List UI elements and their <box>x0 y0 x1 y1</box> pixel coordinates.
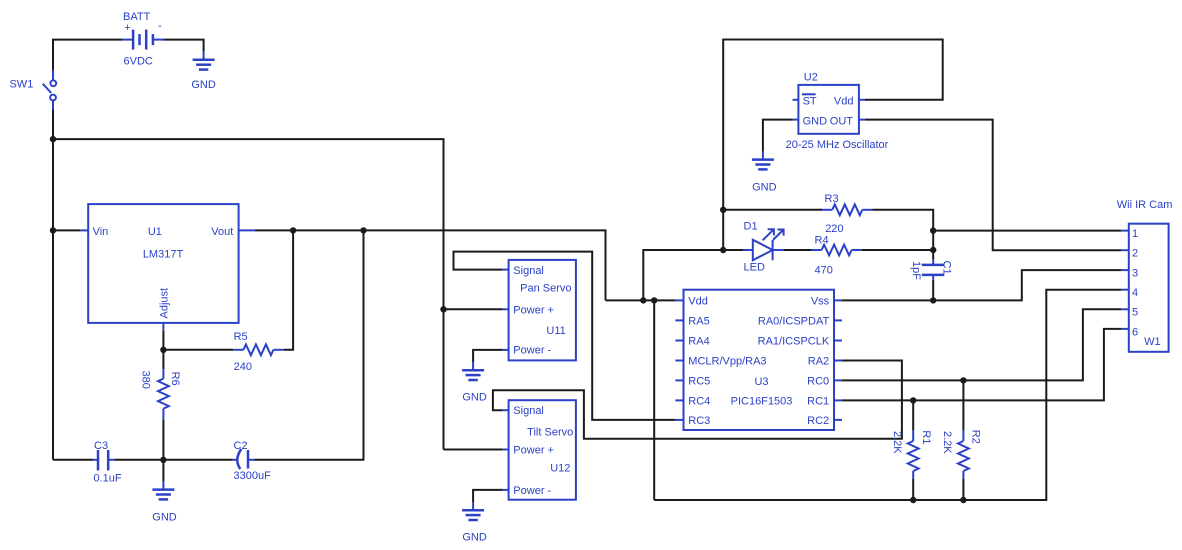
svg-text:Vdd: Vdd <box>688 295 708 307</box>
svg-text:RA0/ICSPDAT: RA0/ICSPDAT <box>758 315 830 327</box>
ground (tilt servo) <box>462 502 487 544</box>
node junction ground column on Vdd rail <box>651 297 657 303</box>
svg-text:380: 380 <box>140 371 152 389</box>
node junction R4/C1 <box>930 247 936 253</box>
node junction adjust/R5/R6 <box>160 347 166 353</box>
svg-text:U11: U11 <box>546 325 565 337</box>
svg-text:Wii IR Cam: Wii IR Cam <box>1117 199 1173 211</box>
svg-text:RA1/ICSPCLK: RA1/ICSPCLK <box>758 336 830 348</box>
svg-text:GND: GND <box>462 532 487 544</box>
resistor R5 <box>233 344 284 355</box>
svg-text:240: 240 <box>234 361 252 373</box>
svg-text:RA4: RA4 <box>688 336 709 348</box>
node junction R2 bottom <box>960 497 966 503</box>
wire tilt power+ <box>444 449 503 451</box>
svg-text:R3: R3 <box>825 193 839 205</box>
wire C1 bottom to Vss row <box>932 280 934 301</box>
svg-text:R4: R4 <box>815 235 829 247</box>
resistor R1 vertical <box>908 400 919 500</box>
node junction C1/Vss <box>930 297 936 303</box>
capacitor C3 <box>93 450 115 470</box>
resistor R6 vertical <box>158 350 169 460</box>
svg-text:SW1: SW1 <box>9 78 33 90</box>
wire to U1 Vin <box>53 229 80 231</box>
svg-text:0.1uF: 0.1uF <box>94 472 122 484</box>
microcontroller U3 PIC16F1503 box <box>675 290 842 430</box>
svg-text:RC1: RC1 <box>807 395 829 407</box>
resistor R4 <box>811 245 861 256</box>
wire W1 pin1 row <box>933 230 1121 232</box>
node junction Vin split <box>50 227 56 233</box>
svg-text:Adjust: Adjust <box>158 288 170 319</box>
connector U12 Tilt Servo box <box>503 400 576 500</box>
ground (battery) <box>191 52 216 91</box>
wire pan power- to ground <box>473 350 503 362</box>
svg-text:MCLR/Vpp/RA3: MCLR/Vpp/RA3 <box>688 356 766 368</box>
capacitor C1 <box>922 260 945 280</box>
svg-text:PIC16F1503: PIC16F1503 <box>731 395 793 407</box>
node junction R3 tap <box>720 207 726 213</box>
wire U2 GND pin to ground <box>763 120 793 152</box>
wire power rail to servos (horizontal) <box>53 139 444 449</box>
svg-text:OUT: OUT <box>830 115 854 127</box>
wire RC0 row to W1 pin5 <box>842 309 1121 380</box>
svg-text:RA5: RA5 <box>688 315 709 327</box>
svg-text:GND: GND <box>803 115 828 127</box>
svg-text:RA2: RA2 <box>808 356 829 368</box>
wire Vss row to W1 pin3 riser <box>842 270 1121 300</box>
svg-text:C3: C3 <box>94 440 108 452</box>
svg-text:RC2: RC2 <box>807 415 829 427</box>
svg-text:6VDC: 6VDC <box>124 56 153 68</box>
wire R4 to C1 column <box>862 249 933 251</box>
node junction R1 top <box>910 397 916 403</box>
op-amp U1 LM317T regulator box <box>80 204 255 331</box>
svg-text:R2: R2 <box>970 430 982 444</box>
svg-text:U12: U12 <box>550 462 570 474</box>
wire R3 row <box>723 209 822 211</box>
wire R3 to C1 column and down <box>873 210 934 260</box>
resistor R2 vertical <box>958 380 969 500</box>
node junction LED tap <box>720 247 726 253</box>
svg-text:Vout: Vout <box>211 226 233 238</box>
connector U11 Pan Servo box <box>503 260 576 361</box>
svg-text:1: 1 <box>1132 228 1138 240</box>
svg-text:Pan Servo: Pan Servo <box>520 283 571 295</box>
svg-text:GND: GND <box>191 79 216 91</box>
svg-text:C1: C1 <box>941 261 953 275</box>
svg-text:U3: U3 <box>754 376 768 388</box>
svg-text:ST: ST <box>803 95 817 107</box>
svg-text:R6: R6 <box>169 372 181 386</box>
wire Vout rail <box>255 230 606 300</box>
svg-text:2: 2 <box>1132 247 1138 259</box>
svg-text:RC5: RC5 <box>688 375 710 387</box>
svg-text:Power +: Power + <box>513 304 554 316</box>
svg-text:5: 5 <box>1132 307 1138 319</box>
svg-text:U1: U1 <box>148 226 162 238</box>
svg-text:Power -: Power - <box>513 485 551 497</box>
wire tilt power- to ground <box>473 490 503 502</box>
svg-text:C2: C2 <box>234 440 248 452</box>
svg-text:3300uF: 3300uF <box>234 470 272 482</box>
svg-text:Tilt Servo: Tilt Servo <box>527 426 573 438</box>
node junction R5 top <box>290 227 296 233</box>
svg-text:+: + <box>124 22 130 34</box>
svg-text:U2: U2 <box>804 72 818 84</box>
svg-text:D1: D1 <box>744 221 758 233</box>
svg-text:Power -: Power - <box>513 345 551 357</box>
wire RC1 row to W1 pin6 <box>842 329 1121 401</box>
svg-text:20-25 MHz Oscillator: 20-25 MHz Oscillator <box>786 139 889 151</box>
node junction R1 bottom <box>910 497 916 503</box>
svg-text:4: 4 <box>1132 287 1138 299</box>
wire adjust node to R5 <box>163 331 233 350</box>
wire LED anode feed <box>643 250 743 300</box>
wire Vdd rail column down to bottom rail <box>653 300 655 500</box>
svg-text:220: 220 <box>825 223 843 235</box>
svg-text:Signal: Signal <box>513 405 544 417</box>
svg-text:GND: GND <box>752 182 777 194</box>
svg-text:LED: LED <box>744 262 765 274</box>
wire LED cathode to R4 <box>784 249 812 251</box>
node junction R2 top <box>960 377 966 383</box>
svg-text:Vin: Vin <box>93 226 109 238</box>
node junction C2/Vout <box>360 227 366 233</box>
wire bottom ground rail to W1 pin4 <box>654 290 1121 500</box>
wire left rail SW1 down to bottom-left corner <box>52 110 54 460</box>
oscillator U2 box <box>793 85 865 134</box>
wire bottom rail left segment <box>53 459 93 461</box>
svg-text:LM317T: LM317T <box>143 248 184 260</box>
wire U2 Vdd loop to LED/R3 node column <box>723 40 943 251</box>
svg-text:Signal: Signal <box>513 265 544 277</box>
battery BATT <box>122 30 163 50</box>
wire pan servo signal to RC3 <box>454 252 676 420</box>
wire bottom rail C2 to Vout riser <box>254 230 363 459</box>
svg-text:W1: W1 <box>1144 336 1161 348</box>
svg-text:GND: GND <box>462 391 487 403</box>
svg-text:2.2K: 2.2K <box>891 431 903 454</box>
svg-text:3: 3 <box>1132 268 1138 280</box>
resistor R3 <box>822 204 873 215</box>
wire bottom rail C3 to C2 <box>115 459 233 461</box>
svg-text:1pF: 1pF <box>910 261 922 280</box>
wire battery left lead to SW1 top <box>53 40 122 70</box>
svg-text:RC4: RC4 <box>688 395 710 407</box>
LED D1 <box>743 229 784 260</box>
svg-text:Vss: Vss <box>811 295 830 307</box>
svg-text:Power +: Power + <box>513 445 554 457</box>
wire pan power+ <box>444 308 503 310</box>
svg-text:Vdd: Vdd <box>834 95 854 107</box>
ground (main rail) <box>152 460 177 524</box>
capacitor C2 polarized <box>233 449 255 469</box>
wire battery to ground <box>164 40 204 52</box>
node junction LED column on Vdd rail <box>640 297 646 303</box>
svg-text:470: 470 <box>815 265 833 277</box>
svg-text:R1: R1 <box>920 430 932 444</box>
svg-text:RC3: RC3 <box>688 415 710 427</box>
node junction pan power+ <box>440 306 446 312</box>
svg-text:6: 6 <box>1132 326 1138 338</box>
connector W1 Wii IR Cam box <box>1121 224 1169 352</box>
wire Vdd rail into U3 <box>606 299 676 301</box>
ground (U2) <box>752 152 777 194</box>
wire tilt servo signal to RA2 <box>493 361 902 439</box>
wire U2 OUT to W1 pin 2 <box>865 120 1121 251</box>
svg-text:2.2K: 2.2K <box>941 431 953 454</box>
svg-text:RC0: RC0 <box>807 375 829 387</box>
switch SW1 <box>43 70 56 110</box>
node junction R6 bottom / GND <box>160 457 166 463</box>
node junction pin1 row tap <box>930 227 936 233</box>
svg-text:GND: GND <box>152 512 177 524</box>
svg-text:R5: R5 <box>234 331 248 343</box>
node junction SW rail split <box>50 136 56 142</box>
svg-text:-: - <box>158 20 162 32</box>
wire R5 vertical drop <box>284 230 293 349</box>
ground (pan servo) <box>462 362 487 403</box>
